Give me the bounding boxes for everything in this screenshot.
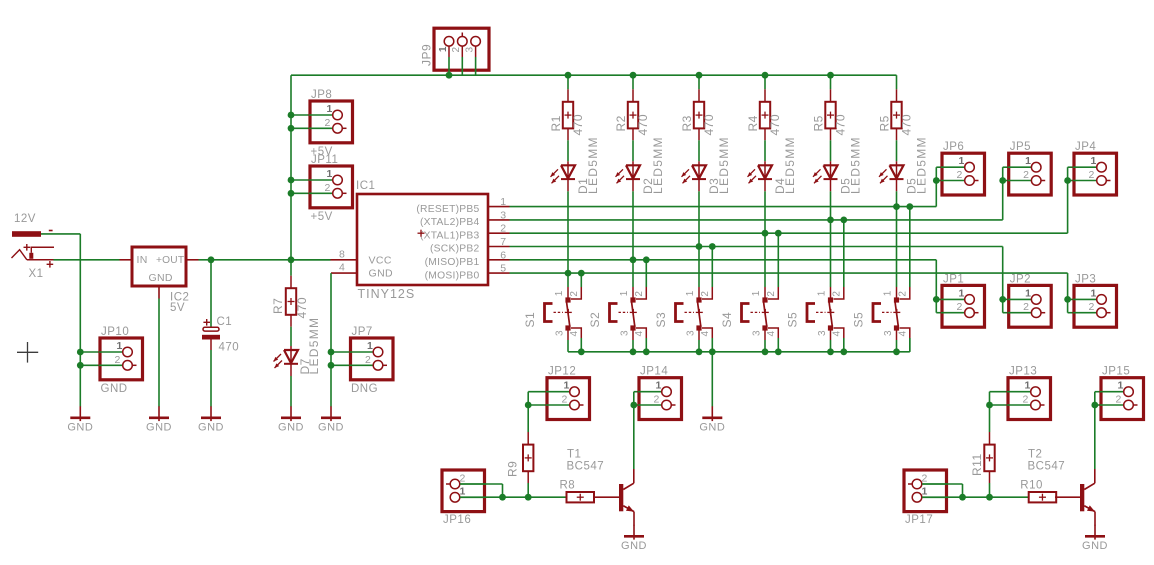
svg-text:3: 3 xyxy=(500,209,506,221)
svg-text:1: 1 xyxy=(958,155,964,167)
svg-text:2: 2 xyxy=(1115,394,1121,406)
svg-text:1: 1 xyxy=(883,290,894,296)
svg-text:GND: GND xyxy=(146,422,172,434)
svg-text:IN: IN xyxy=(137,254,148,266)
svg-text:1: 1 xyxy=(554,290,565,296)
svg-text:3: 3 xyxy=(817,330,828,336)
svg-text:GND: GND xyxy=(621,540,647,552)
svg-text:1: 1 xyxy=(460,485,466,497)
svg-text:R3: R3 xyxy=(680,115,694,131)
svg-text:LED5MM: LED5MM xyxy=(307,317,321,375)
svg-text:2: 2 xyxy=(365,354,371,366)
svg-text:1: 1 xyxy=(958,287,964,299)
svg-text:JP5: JP5 xyxy=(1010,141,1031,153)
svg-text:5: 5 xyxy=(500,263,506,275)
svg-text:GND: GND xyxy=(278,422,304,434)
svg-text:JP14: JP14 xyxy=(640,366,668,378)
svg-text:12V: 12V xyxy=(14,213,36,225)
svg-text:2: 2 xyxy=(700,291,711,297)
svg-text:(XTAL2)PB4: (XTAL2)PB4 xyxy=(420,217,480,228)
svg-text:S3: S3 xyxy=(654,312,668,328)
svg-text:7: 7 xyxy=(500,236,506,248)
svg-text:3: 3 xyxy=(620,330,631,336)
svg-text:DNG: DNG xyxy=(351,383,378,395)
svg-text:2: 2 xyxy=(569,291,580,297)
svg-text:GND: GND xyxy=(699,422,725,434)
svg-text:2: 2 xyxy=(898,291,909,297)
svg-text:R8: R8 xyxy=(560,480,576,492)
svg-text:JP13: JP13 xyxy=(1009,366,1037,378)
svg-text:470: 470 xyxy=(768,114,782,136)
svg-text:LED5MM: LED5MM xyxy=(915,136,929,194)
svg-text:(XTAL1)PB3: (XTAL1)PB3 xyxy=(420,230,480,241)
svg-text:S5: S5 xyxy=(852,312,866,328)
svg-text:4: 4 xyxy=(766,331,777,337)
svg-text:4: 4 xyxy=(700,331,711,337)
svg-text:+5V: +5V xyxy=(311,211,333,223)
svg-text:2: 2 xyxy=(832,291,843,297)
svg-text:JP17: JP17 xyxy=(905,514,933,526)
svg-text:2: 2 xyxy=(1022,394,1028,406)
svg-text:4: 4 xyxy=(339,262,345,274)
svg-text:1: 1 xyxy=(655,380,661,392)
svg-text:1: 1 xyxy=(619,290,630,296)
svg-text:VCC: VCC xyxy=(369,254,392,266)
svg-text:X1: X1 xyxy=(29,268,44,280)
svg-text:1: 1 xyxy=(500,196,506,208)
svg-text:1: 1 xyxy=(1090,155,1096,167)
svg-text:LED5MM: LED5MM xyxy=(849,136,863,194)
svg-text:2: 2 xyxy=(114,354,120,366)
svg-text:R2: R2 xyxy=(614,115,628,131)
svg-text:2: 2 xyxy=(1088,301,1094,313)
svg-text:R11: R11 xyxy=(970,453,984,476)
svg-text:BC547: BC547 xyxy=(1028,461,1066,473)
svg-text:R10: R10 xyxy=(1020,480,1043,492)
svg-text:2: 2 xyxy=(460,473,466,485)
svg-text:3: 3 xyxy=(555,330,566,336)
svg-text:JP8: JP8 xyxy=(311,89,332,101)
svg-text:T1: T1 xyxy=(567,449,581,461)
svg-text:R5: R5 xyxy=(812,115,826,131)
svg-text:(MOSI)PB0: (MOSI)PB0 xyxy=(425,270,480,281)
svg-text:2: 2 xyxy=(956,169,962,181)
svg-text:4: 4 xyxy=(832,331,843,337)
svg-text:IC1: IC1 xyxy=(356,180,375,192)
svg-text:JP1: JP1 xyxy=(943,273,964,285)
svg-text:1: 1 xyxy=(922,485,928,497)
svg-text:TINY12S: TINY12S xyxy=(358,287,416,301)
svg-text:R9: R9 xyxy=(506,461,520,477)
svg-text:JP15: JP15 xyxy=(1102,366,1130,378)
svg-text:(SCK)PB2: (SCK)PB2 xyxy=(430,244,480,255)
svg-text:2: 2 xyxy=(324,182,330,194)
svg-text:R4: R4 xyxy=(746,115,760,131)
svg-text:S2: S2 xyxy=(588,312,602,328)
svg-text:470: 470 xyxy=(900,114,914,136)
svg-text:3: 3 xyxy=(464,47,475,53)
svg-text:2: 2 xyxy=(766,291,777,297)
svg-text:1: 1 xyxy=(1025,287,1031,299)
svg-text:1: 1 xyxy=(438,46,449,52)
svg-text:GND: GND xyxy=(149,272,173,284)
svg-text:470: 470 xyxy=(834,114,848,136)
svg-text:LED5MM: LED5MM xyxy=(717,136,731,194)
svg-text:JP11: JP11 xyxy=(311,154,338,166)
svg-text:T2: T2 xyxy=(1028,449,1042,461)
svg-text:R5: R5 xyxy=(878,115,892,131)
svg-text:4: 4 xyxy=(569,331,580,337)
svg-text:2: 2 xyxy=(922,473,928,485)
svg-text:2: 2 xyxy=(451,47,462,53)
svg-text:C1: C1 xyxy=(217,316,233,328)
svg-text:4: 4 xyxy=(634,331,645,337)
svg-text:1: 1 xyxy=(751,290,762,296)
svg-text:470: 470 xyxy=(571,114,585,136)
svg-text:1: 1 xyxy=(1090,287,1096,299)
svg-text:GND: GND xyxy=(1082,540,1108,552)
svg-text:1: 1 xyxy=(367,340,373,352)
svg-text:3: 3 xyxy=(686,330,697,336)
svg-text:1: 1 xyxy=(817,290,828,296)
svg-text:2: 2 xyxy=(500,223,506,235)
svg-text:1: 1 xyxy=(1117,380,1123,392)
svg-text:2: 2 xyxy=(956,301,962,313)
svg-text:1: 1 xyxy=(1024,380,1030,392)
svg-text:+OUT: +OUT xyxy=(156,255,184,266)
svg-text:1: 1 xyxy=(326,168,332,180)
svg-text:1: 1 xyxy=(326,103,332,115)
svg-text:GND: GND xyxy=(67,422,93,434)
svg-text:6: 6 xyxy=(500,249,506,261)
svg-text:JP3: JP3 xyxy=(1075,273,1096,285)
svg-text:R1: R1 xyxy=(549,115,563,131)
svg-text:8: 8 xyxy=(339,248,345,260)
svg-text:LED5MM: LED5MM xyxy=(783,136,797,194)
svg-text:2: 2 xyxy=(653,394,659,406)
svg-text:BC547: BC547 xyxy=(567,461,605,473)
svg-text:S5: S5 xyxy=(786,312,800,328)
svg-text:470: 470 xyxy=(219,342,240,354)
svg-text:4: 4 xyxy=(898,331,909,337)
svg-text:1: 1 xyxy=(116,340,122,352)
svg-text:S1: S1 xyxy=(523,312,537,328)
svg-text:LED5MM: LED5MM xyxy=(586,136,600,194)
svg-text:JP2: JP2 xyxy=(1010,273,1031,285)
svg-text:JP4: JP4 xyxy=(1075,141,1096,153)
svg-text:5V: 5V xyxy=(170,302,185,314)
svg-text:GND: GND xyxy=(101,383,128,395)
svg-text:R7: R7 xyxy=(271,298,285,314)
svg-text:(MISO)PB1: (MISO)PB1 xyxy=(425,257,480,268)
svg-text:3: 3 xyxy=(883,330,894,336)
svg-text:JP12: JP12 xyxy=(548,366,576,378)
svg-text:2: 2 xyxy=(634,291,645,297)
svg-text:1: 1 xyxy=(685,290,696,296)
svg-text:3: 3 xyxy=(752,330,763,336)
svg-text:1: 1 xyxy=(1025,155,1031,167)
svg-text:470: 470 xyxy=(636,114,650,136)
svg-text:2: 2 xyxy=(324,117,330,129)
svg-text:470: 470 xyxy=(295,297,309,319)
svg-text:JP6: JP6 xyxy=(943,141,964,153)
svg-text:JP7: JP7 xyxy=(352,326,373,338)
svg-text:2: 2 xyxy=(1023,169,1029,181)
svg-text:(RESET)PB5: (RESET)PB5 xyxy=(416,204,479,215)
svg-text:JP16: JP16 xyxy=(443,514,471,526)
svg-text:1: 1 xyxy=(563,380,569,392)
svg-text:JP10: JP10 xyxy=(101,326,129,338)
svg-text:S4: S4 xyxy=(720,312,734,328)
svg-text:LED5MM: LED5MM xyxy=(651,136,665,194)
svg-text:2: 2 xyxy=(1088,169,1094,181)
svg-text:GND: GND xyxy=(318,422,344,434)
svg-text:2: 2 xyxy=(1023,301,1029,313)
svg-text:GND: GND xyxy=(369,268,394,280)
svg-text:2: 2 xyxy=(561,394,567,406)
svg-text:GND: GND xyxy=(198,422,224,434)
svg-text:470: 470 xyxy=(702,114,716,136)
svg-text:JP9: JP9 xyxy=(420,44,434,66)
